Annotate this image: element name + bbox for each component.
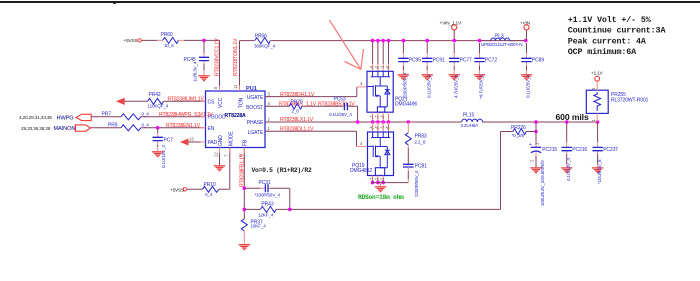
svg-text:2: 2	[529, 159, 534, 162]
svg-text:10KF_4: 10KF_4	[251, 224, 267, 229]
svg-text:29,33,36,38,39: 29,33,36,38,39	[21, 126, 51, 131]
svg-text:PC216: PC216	[572, 147, 587, 153]
svg-text:PC81: PC81	[415, 163, 427, 169]
svg-text:+5VSS: +5VSS	[170, 187, 184, 192]
mosfet symbol	[368, 146, 374, 158]
capacitor PC77	[449, 43, 473, 98]
svg-text:0_4: 0_4	[205, 192, 213, 197]
wire BOOST	[265, 106, 358, 122]
svg-text:0_4: 0_4	[142, 111, 150, 116]
svg-text:DMG4496: DMG4496	[395, 101, 417, 107]
svg-text:PR43: PR43	[261, 202, 273, 208]
resistor PR60	[163, 37, 179, 43]
svg-text:PC215: PC215	[542, 147, 557, 153]
resistor PR9	[121, 125, 141, 131]
node FB junction lower	[243, 208, 247, 212]
capacitor PC216	[561, 120, 587, 181]
svg-text:0.1U/25V_4: 0.1U/25V_4	[426, 75, 431, 98]
svg-text:Peak current: 4A: Peak current: 4A	[568, 36, 647, 46]
svg-text:PAD: PAD	[208, 140, 218, 146]
IC PU1 RT8228A	[206, 91, 266, 148]
svg-text:RT8228A: RT8228A	[225, 113, 247, 119]
svg-text:PC31: PC31	[259, 180, 271, 186]
svg-text:2200P/50V_4: 2200P/50V_4	[403, 72, 408, 99]
svg-text:OCP minimum:6A: OCP minimum:6A	[568, 47, 637, 57]
svg-text:600 mils: 600 mils	[556, 112, 589, 122]
svg-text:0.1U/10V_4: 0.1U/10V_4	[161, 145, 166, 168]
svg-text:4.7U/25V_8: 4.7U/25V_8	[453, 75, 458, 98]
box	[368, 132, 394, 176]
svg-text:PC77: PC77	[460, 58, 472, 64]
svg-text:FB: FB	[243, 139, 249, 146]
svg-text:*5: *5	[370, 126, 375, 131]
body diode	[380, 147, 387, 168]
svg-text:RT8238FB1.1V: RT8238FB1.1V	[239, 153, 245, 187]
svg-text:*0_2/8: *0_2/8	[512, 133, 525, 138]
svg-text:+: +	[529, 142, 532, 148]
inductor PL15	[462, 119, 483, 122]
svg-text:3: 3	[268, 92, 271, 97]
capacitor PC7	[152, 128, 173, 168]
node FB junction upper	[243, 186, 247, 190]
wire TON rail	[240, 41, 527, 91]
inner drain bus	[371, 71, 390, 86]
capacitor PC45	[203, 40, 205, 53]
svg-text:11: 11	[233, 84, 238, 89]
svg-text:RT8238DH1.1V: RT8238DH1.1V	[280, 92, 315, 98]
svg-text:BOOST: BOOST	[246, 105, 263, 111]
wire FB sense line	[290, 132, 536, 210]
annotation arrow	[329, 20, 360, 69]
svg-text:2.2_8: 2.2_8	[415, 140, 426, 145]
svg-text:1U/6.3V_4: 1U/6.3V_4	[193, 61, 198, 82]
capacitor PC95	[398, 39, 422, 99]
svg-text:+1.1V: +1.1V	[591, 71, 604, 76]
resistor PR56	[255, 38, 270, 44]
svg-text:PR7: PR7	[102, 111, 112, 117]
wire PHASE rail	[265, 121, 598, 123]
wire LGATE	[265, 131, 357, 146]
svg-text:*10U/6.3V_8: *10U/6.3V_8	[597, 159, 602, 184]
capacitor PC72	[474, 43, 498, 99]
svg-text:1: 1	[591, 119, 596, 122]
svg-text:RL3720WT-R001: RL3720WT-R001	[611, 98, 649, 104]
svg-text:PR9: PR9	[108, 122, 118, 128]
svg-text:0_4: 0_4	[142, 122, 150, 127]
capacitor PC81	[403, 164, 414, 167]
ground (chip GND pin 12)	[219, 148, 221, 166]
svg-text:RT8238DL1.1V: RT8238DL1.1V	[280, 126, 314, 132]
resistor PR255 (boxed)	[586, 81, 648, 122]
svg-text:DMG4812: DMG4812	[350, 168, 372, 174]
svg-text:MODE: MODE	[228, 131, 234, 146]
svg-text:100U/6.3V_4X5.8/SR/D: 100U/6.3V_4X5.8/SR/D	[540, 160, 545, 206]
sheet top border	[0, 1, 700, 3]
source tab	[375, 168, 384, 176]
svg-text:*100P/50V_4: *100P/50V_4	[255, 193, 281, 198]
svg-text:2200P/50V_4: 2200P/50V_4	[414, 170, 419, 197]
resistor PR60 leads	[157, 39, 184, 41]
port +5VSS top	[138, 39, 141, 42]
node ILIM arrow stub	[117, 98, 124, 104]
source tab	[377, 107, 384, 112]
svg-text:7: 7	[224, 154, 229, 157]
wire MODE to PR10	[187, 148, 230, 190]
svg-text:*8: *8	[386, 65, 391, 70]
svg-text:*5: *5	[370, 65, 375, 70]
svg-text:1: 1	[535, 142, 540, 145]
ground (PC45)	[198, 76, 209, 81]
capacitor PC89	[521, 43, 545, 98]
box	[367, 71, 393, 112]
svg-text:110KQF_4: 110KQF_4	[148, 103, 169, 108]
node EN junction	[156, 126, 160, 130]
svg-text:4,20,29,31,33,36: 4,20,29,31,33,36	[19, 115, 52, 120]
svg-text:PR56: PR56	[255, 34, 267, 40]
svg-text:VCC: VCC	[218, 97, 224, 108]
svg-text:LGATE: LGATE	[248, 130, 264, 136]
inner drain bus	[371, 132, 390, 147]
svg-text:PC72: PC72	[485, 58, 497, 64]
resistor PR37	[241, 219, 247, 231]
svg-text:PR70: PR70	[291, 99, 303, 105]
svg-text:PC53: PC53	[334, 96, 346, 102]
svg-text:PR42: PR42	[149, 92, 161, 98]
svg-text:PC7: PC7	[164, 138, 174, 144]
svg-text:PR226: PR226	[511, 125, 526, 131]
node PAD stub	[187, 141, 206, 143]
junction PC45 tap	[202, 39, 206, 43]
resistor PR43 branch	[244, 208, 289, 210]
svg-text:GND: GND	[218, 135, 224, 146]
svg-text:*1: *1	[370, 115, 375, 120]
wire +5VSS to VCC rail	[141, 40, 220, 91]
svg-text:+VIN: +VIN	[520, 21, 530, 26]
wire HWPG to PGOOD	[91, 116, 205, 118]
svg-text:PC91: PC91	[433, 58, 445, 64]
wire UGATE	[265, 87, 357, 97]
ground (PQ19 source)	[380, 183, 382, 187]
svg-text:*8: *8	[386, 126, 391, 131]
resistor PR226	[513, 129, 527, 135]
resistor PR7	[121, 114, 141, 120]
svg-text:RT8238TON1.1V: RT8238TON1.1V	[233, 38, 239, 76]
svg-text:PC237: PC237	[603, 147, 618, 153]
svg-text:*6: *6	[375, 65, 380, 70]
wire FB node	[243, 148, 245, 220]
svg-text:+VIN_1.1V: +VIN_1.1V	[440, 21, 462, 26]
wire CS line	[124, 100, 206, 102]
resistor PR10	[203, 186, 220, 192]
source stubs to phase rail	[373, 112, 389, 122]
svg-text:2_8: 2_8	[292, 109, 300, 114]
wire source/gnd rail	[371, 182, 408, 184]
resistor PR70	[289, 104, 302, 110]
svg-text:RDSon=18m ohm: RDSon=18m ohm	[358, 194, 404, 201]
svg-text:*6: *6	[375, 126, 380, 131]
svg-text:Vo=0.5 (R1+R2)/R2: Vo=0.5 (R1+R2)/R2	[252, 167, 312, 174]
svg-text:CS: CS	[208, 99, 216, 105]
svg-text:+5VSS: +5VSS	[124, 38, 138, 43]
capacitor PC237	[592, 120, 618, 184]
svg-text:12: 12	[213, 152, 218, 157]
transistor PQ21 DMG4496	[367, 39, 417, 124]
capacitor PC215 (polarized)	[529, 142, 557, 206]
svg-text:4: 4	[360, 81, 363, 86]
svg-text:4: 4	[360, 141, 363, 146]
svg-text:RT8238VCC1.1V: RT8238VCC1.1V	[214, 38, 220, 76]
svg-text:PC95: PC95	[409, 58, 421, 64]
capacitor PC91	[422, 39, 446, 98]
svg-text:1.1V: 1.1V	[306, 101, 317, 107]
svg-text:HWPG: HWPG	[57, 115, 74, 121]
svg-text:4: 4	[268, 101, 271, 106]
svg-text:TON: TON	[239, 97, 245, 108]
wire chip pin stubs	[201, 86, 271, 154]
svg-text:UPB201212T-600Y-N: UPB201212T-600Y-N	[481, 42, 522, 47]
svg-text:360KQF_4: 360KQF_4	[254, 44, 276, 49]
svg-text:*7: *7	[380, 126, 385, 131]
capacitor PC53	[344, 103, 347, 110]
drain stubs from phase rail	[373, 122, 389, 132]
power +VIN_1.1V	[452, 25, 457, 30]
capacitor PC31 branch	[244, 188, 289, 209]
mosfet symbol	[367, 85, 373, 96]
svg-text:PR10: PR10	[204, 182, 216, 188]
svg-text:PR60: PR60	[161, 32, 173, 38]
body diode	[380, 86, 387, 107]
svg-text:PC89: PC89	[532, 58, 544, 64]
source stubs to gnd rail	[373, 176, 384, 183]
svg-text:PHASE: PHASE	[247, 120, 264, 126]
ground (PR37)	[239, 245, 250, 250]
svg-text:0.1U/10V_4: 0.1U/10V_4	[566, 158, 571, 181]
port +5VSS bottom	[183, 188, 186, 191]
svg-text:*3: *3	[380, 115, 385, 120]
drain stubs to +VIN rail	[373, 41, 389, 64]
svg-text:5: 5	[213, 86, 218, 89]
svg-text:2: 2	[268, 117, 271, 122]
svg-text:EN: EN	[208, 126, 215, 132]
inductor PL3	[480, 40, 527, 42]
svg-text:RT8238LX1.1V: RT8238LX1.1V	[280, 117, 314, 123]
node output junction	[534, 120, 538, 124]
resistor PR56 leads	[254, 40, 271, 42]
svg-text:MAINON: MAINON	[54, 126, 76, 132]
svg-text:2.2UH8A: 2.2UH8A	[461, 123, 480, 128]
svg-text:PL3: PL3	[495, 33, 504, 39]
svg-text:*2: *2	[375, 115, 380, 120]
svg-text:PL15: PL15	[463, 113, 475, 119]
svg-text:10_5: 10_5	[164, 43, 174, 48]
svg-text:UGATE: UGATE	[247, 95, 264, 101]
svg-text:0.1U/25V_4: 0.1U/25V_4	[329, 112, 352, 117]
transistor PQ19 DMG4812	[350, 122, 394, 184]
svg-text:*7: *7	[380, 65, 385, 70]
svg-text:RT8238EN1.1V: RT8238EN1.1V	[166, 123, 201, 129]
svg-text:1: 1	[268, 126, 271, 131]
power +1.1V	[595, 76, 600, 81]
svg-text:12KF_4: 12KF_4	[258, 212, 274, 217]
svg-text:PU1: PU1	[246, 86, 257, 92]
svg-text:Countinue current:3A: Countinue current:3A	[568, 26, 667, 36]
svg-text:RT8238ILIM1.1V: RT8238ILIM1.1V	[168, 96, 205, 102]
svg-text:13: 13	[189, 137, 194, 142]
wire MAINON to EN	[90, 127, 205, 129]
svg-text:*4.7U/25V_8: *4.7U/25V_8	[479, 74, 484, 99]
resistor PR83	[407, 120, 411, 124]
svg-text:0.1U/25V_4: 0.1U/25V_4	[526, 75, 531, 98]
svg-text:+1.1V Volt +/- 5%: +1.1V Volt +/- 5%	[568, 15, 652, 25]
resistor PR42	[148, 98, 164, 104]
power +VIN	[524, 25, 529, 30]
svg-text:2: 2	[591, 87, 596, 90]
